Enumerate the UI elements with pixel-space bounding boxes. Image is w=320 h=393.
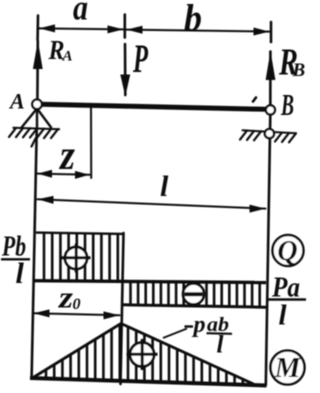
svg-text:b: b — [184, 0, 202, 40]
svg-text:B: B — [280, 87, 294, 122]
svg-text:M: M — [274, 352, 302, 384]
svg-text:Q: Q — [277, 236, 297, 267]
svg-text:P: P — [132, 36, 148, 81]
svg-text:z: z — [58, 133, 75, 179]
svg-text:z: z — [58, 280, 73, 315]
svg-text:a: a — [73, 0, 88, 28]
svg-text:p: p — [192, 312, 206, 338]
svg-text:l: l — [160, 170, 169, 203]
svg-text:B: B — [292, 60, 306, 81]
svg-text:A: A — [62, 49, 73, 65]
svg-text:0: 0 — [73, 296, 81, 313]
svg-text:l: l — [217, 332, 224, 359]
svg-text:l: l — [279, 300, 288, 332]
svg-text:A: A — [8, 89, 25, 114]
svg-text:l: l — [16, 257, 25, 290]
